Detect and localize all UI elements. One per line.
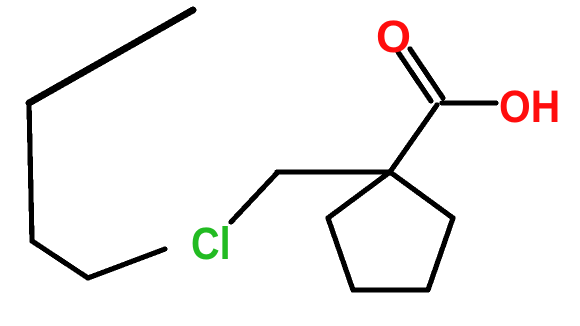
C1 to COOH: [390, 105, 437, 172]
bottom rising line: [88, 249, 165, 278]
Cl bond: [231, 173, 277, 222]
long diagonal: [29, 10, 193, 103]
ring: [328, 172, 390, 218]
svg-text:O: O: [376, 11, 411, 62]
svg-text:OH: OH: [499, 82, 560, 132]
left near-vertical: [29, 103, 32, 241]
horizontal bond: [277, 169, 390, 174]
C-OH bond: [442, 100, 496, 105]
svg-text:Cl: Cl: [191, 219, 231, 269]
C=O double bond: [398, 52, 431, 101]
bottom-left diagonal: [32, 241, 88, 278]
